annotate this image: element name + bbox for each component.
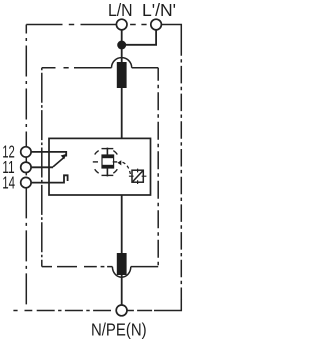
svg-text:14: 14: [2, 173, 15, 193]
inner module border bridge arc over wire (bottom): [112, 267, 130, 278]
spark gap bottom stem: [106, 168, 108, 176]
changeover switch blade: [53, 158, 64, 167]
svg-text:L'/N': L'/N': [142, 0, 176, 20]
contact 14 line with hook: [31, 175, 68, 182]
inner module border right edge: [157, 68, 159, 267]
spark gap electrode housing: [102, 155, 114, 168]
terminal 12: [21, 147, 31, 157]
monitoring dashed link to indicator: [123, 162, 131, 175]
monitoring arrow: [117, 160, 121, 165]
spark gap top stem: [106, 148, 108, 156]
outer device border left edge: [25, 25, 27, 161]
outer device border top link dashes between terminals: [130, 24, 147, 26]
terminal N/PE: [116, 305, 127, 316]
wire disconnector to protection box: [121, 87, 123, 138]
spark gap top electrode: [102, 155, 114, 158]
terminal L/N: [116, 19, 127, 30]
inner module border top edge: [42, 67, 112, 69]
thermal monitoring dashed circle: [93, 149, 118, 176]
wire protection box to bottom disconnector: [121, 195, 123, 254]
disconnector contact (top, plug-in): [117, 62, 127, 88]
inner module border left edge: [41, 68, 43, 267]
svg-text:N/PE(N): N/PE(N): [91, 319, 147, 339]
wire L/N terminal down to junction: [121, 30, 123, 63]
terminal L'/N': [151, 19, 162, 30]
fault indicator diagonal: [132, 171, 143, 183]
junction dot: [117, 41, 126, 50]
inner module border bridge arc over wire (top): [112, 58, 132, 68]
fault indicator ticks: [129, 169, 147, 184]
wire bottom disconnector to N/PE terminal: [121, 275, 123, 306]
outer device border bottom edge: [13, 310, 32, 312]
terminal 11: [21, 162, 31, 172]
outer device border top right corner: [162, 25, 182, 56]
switch blade arrowhead: [61, 154, 67, 159]
svg-text:L/N: L/N: [108, 0, 133, 20]
wire L'/N' branch to junction: [122, 30, 156, 45]
outer device border right edge: [180, 59, 182, 300]
contact 12 line: [31, 152, 66, 157]
outer device border top edge left: [26, 24, 116, 26]
outer device border bottom right corner: [154, 300, 181, 311]
disconnector contact (bottom, plug-in): [117, 253, 127, 275]
spark gap bottom electrode: [102, 165, 114, 168]
protection module box: [49, 138, 151, 195]
fault indicator window: [132, 170, 143, 182]
terminal 14: [21, 177, 31, 187]
inner module border bottom edge: [42, 266, 113, 268]
contact 11 line: [31, 166, 53, 168]
